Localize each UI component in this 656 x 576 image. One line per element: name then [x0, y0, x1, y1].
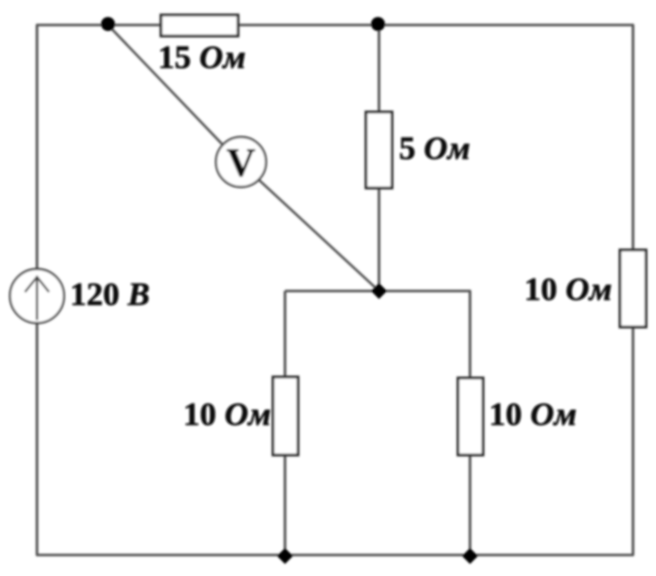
svg-text:5 Ом: 5 Ом — [399, 131, 470, 167]
source U1 120 В (circle with up arrow) — [10, 269, 64, 323]
resistor R4 10 Ом (bottom-left vertical box) — [273, 377, 298, 455]
node B junction dot — [371, 17, 385, 31]
wire: right vertical (bottom segment from 10 Ом resistor) — [632, 327, 635, 555]
resistor R3 10 Ом (right vertical box) — [620, 250, 646, 327]
wire: right vertical (top segment to 10 Ом resistor) — [632, 25, 635, 250]
wire: right leg down to R5 — [469, 291, 472, 378]
node A junction dot — [101, 17, 115, 31]
svg-text:10 Ом: 10 Ом — [489, 397, 577, 433]
wire: top horizontal (right of resistor R1) — [238, 24, 634, 27]
wire: middle vertical from node B through 5 Ом to node C — [378, 25, 381, 112]
voltmeter V (circle on diagonal wire) — [216, 137, 266, 187]
resistor R2 5 Ом (vertical box) — [366, 112, 392, 188]
svg-text:V: V — [227, 140, 256, 185]
wire: bottom horizontal — [36, 554, 634, 557]
wire: left leg down to R4 — [284, 291, 287, 377]
wire: left vertical (bottom segment, from source circle to bottom wire) — [36, 323, 39, 555]
wire: left vertical (top segment, from top wire to source circle) — [36, 25, 39, 269]
wire: diagonal from node A to node C through voltmeter — [108, 25, 222, 144]
wire: R5 to bottom wire — [469, 455, 472, 555]
node C junction dot — [371, 283, 387, 299]
wire: center bus at node C — [285, 290, 471, 293]
node D junction dot (bottom left) — [277, 548, 293, 564]
wire: R4 to bottom wire — [284, 455, 287, 555]
resistor R5 10 Ом (bottom-right vertical box) — [458, 378, 483, 455]
svg-text:10 Ом: 10 Ом — [524, 272, 612, 308]
node E junction dot (bottom right) — [462, 548, 478, 564]
wire: top horizontal (left of resistor R1) — [36, 24, 161, 27]
svg-text:10 Ом: 10 Ом — [183, 397, 271, 433]
svg-text:15 Ом: 15 Ом — [158, 40, 246, 76]
resistor R1 15 Ом (horizontal box on top wire) — [161, 15, 238, 36]
svg-text:120 В: 120 В — [70, 277, 150, 313]
